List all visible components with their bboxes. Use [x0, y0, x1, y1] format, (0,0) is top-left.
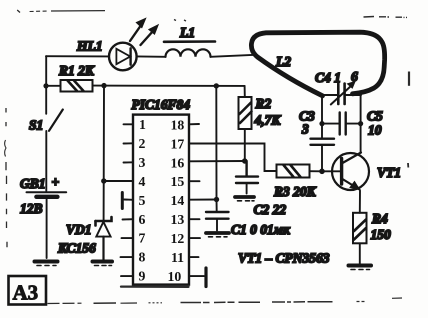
svg-text:C2 22: C2 22	[254, 202, 287, 217]
svg-text:VT1: VT1	[377, 165, 401, 180]
zener diode VD1	[96, 217, 112, 261]
battery GB1	[27, 192, 67, 258]
switch S1	[45, 56, 47, 114]
svg-text:4,7K: 4,7K	[254, 113, 282, 128]
svg-text:VT1 – CPN3563: VT1 – CPN3563	[238, 251, 330, 266]
svg-text:+: +	[52, 175, 60, 190]
wire emitter to R4	[359, 191, 361, 213]
svg-text:VD1: VD1	[66, 222, 92, 237]
pin 5 stub	[124, 199, 133, 201]
svg-text:7: 7	[139, 231, 146, 246]
svg-text:16: 16	[171, 155, 185, 170]
svg-text:R4: R4	[371, 211, 388, 226]
resistor R1	[61, 80, 93, 92]
svg-text:150: 150	[371, 227, 392, 242]
svg-text:1: 1	[139, 117, 146, 132]
wire LED to L1	[137, 55, 166, 57]
transistor VT1	[322, 153, 369, 191]
svg-text:12В: 12В	[20, 201, 43, 216]
loop antenna L2	[251, 32, 384, 96]
capacitor C2	[236, 161, 258, 194]
capacitor C1	[206, 200, 229, 231]
wire R3 to base node	[310, 170, 322, 172]
svg-text:8: 8	[139, 250, 146, 265]
svg-text:A3: A3	[13, 281, 39, 305]
pin 7 stub	[122, 237, 134, 239]
wire L1 to L2 loop	[211, 55, 257, 57]
svg-text:15: 15	[171, 174, 185, 189]
ground R4	[349, 266, 372, 270]
node A junction	[319, 121, 324, 126]
svg-text:18: 18	[171, 117, 185, 132]
wire R2 to node B	[244, 129, 246, 161]
svg-text:КС156: КС156	[57, 241, 96, 256]
pin 3 stub	[124, 161, 134, 163]
junction battery rail	[43, 83, 48, 88]
pin 4 wire to VD1 rail	[104, 180, 133, 182]
svg-text:14: 14	[171, 193, 185, 208]
svg-text:6: 6	[351, 69, 358, 84]
pin 10 stub	[189, 275, 204, 277]
junction pin14	[214, 197, 219, 202]
capacitor C3	[311, 139, 335, 145]
pin 6 stub	[123, 218, 134, 220]
ground battery	[35, 262, 58, 266]
junction VD1 line	[101, 83, 106, 88]
pin 9 stub	[121, 275, 133, 277]
wire loop left end down to node A	[321, 96, 323, 138]
wire R4 to ground	[359, 243, 361, 264]
pin 15 stub	[189, 180, 200, 182]
pin 10 terminator bar	[204, 268, 207, 287]
pin numbers	[139, 117, 185, 284]
pin 11 stub	[189, 256, 199, 258]
wire top rail from battery corner to LED	[46, 55, 109, 57]
svg-text:10: 10	[368, 123, 382, 138]
resistor R4	[353, 213, 367, 244]
pin 12 stub	[189, 237, 200, 239]
pin 1 stub	[124, 123, 134, 125]
pin 17 wire to R3	[189, 144, 277, 172]
svg-text:2: 2	[139, 136, 146, 151]
svg-text:GB1: GB1	[20, 176, 46, 191]
ground C1	[206, 233, 229, 237]
pin 16 wire to R2 node	[189, 160, 245, 162]
node B junction	[242, 158, 247, 163]
wire VD1 rail	[103, 86, 105, 220]
ground VD1	[93, 262, 113, 266]
svg-text:4: 4	[139, 174, 146, 189]
svg-text:17: 17	[171, 136, 185, 151]
svg-text:3: 3	[139, 155, 146, 170]
wire C5 to collector rail	[346, 123, 360, 125]
resistor R3	[277, 165, 310, 178]
junction C1 line	[214, 83, 219, 88]
inductor L1	[164, 42, 215, 57]
pin 2 stub	[124, 142, 134, 144]
svg-text:L1: L1	[179, 25, 195, 40]
svg-text:C4 1: C4 1	[315, 70, 341, 85]
svg-text:HL1: HL1	[76, 39, 103, 54]
svg-text:C5: C5	[367, 109, 383, 124]
junction pin4 wire	[101, 178, 106, 183]
node base junction	[319, 169, 325, 175]
pin 8 stub	[121, 256, 134, 258]
svg-text:R2: R2	[255, 96, 272, 111]
wire R1 row	[46, 85, 61, 87]
svg-text:11: 11	[171, 250, 184, 265]
resistor R2	[239, 97, 252, 129]
pin 18 stub	[189, 123, 199, 125]
ground C2	[235, 197, 254, 201]
svg-text:5: 5	[139, 193, 146, 208]
svg-text:10: 10	[168, 269, 182, 284]
pin 13 stub	[189, 218, 200, 220]
svg-text:R1 2K: R1 2K	[58, 63, 95, 78]
svg-text:13: 13	[171, 212, 185, 227]
pin 14 wire to C1 rail	[189, 199, 217, 201]
IC U1 PIC16F84	[133, 115, 189, 285]
svg-text:6: 6	[139, 212, 146, 227]
wire C3 to base node	[321, 145, 323, 172]
LED HL1	[109, 19, 158, 71]
capacitor C5	[340, 113, 346, 135]
svg-text:9: 9	[139, 269, 146, 284]
frame A3 box	[9, 276, 47, 305]
pin 5 terminator bar	[121, 193, 124, 209]
wire C1 rail	[215, 86, 217, 200]
svg-text:L2: L2	[275, 54, 291, 69]
svg-text:12: 12	[171, 231, 185, 246]
svg-text:C1 0 01мк: C1 0 01мк	[231, 222, 291, 237]
trimmer capacitor C4	[322, 82, 362, 105]
svg-text:PIC16F84: PIC16F84	[132, 97, 191, 112]
wire R1 row to R2	[244, 86, 246, 97]
node collector junction	[358, 121, 363, 126]
wire node A to C5	[322, 123, 339, 125]
wire loop right end down to collector	[360, 96, 362, 152]
svg-text:S1: S1	[29, 118, 43, 133]
svg-text:R3 20K: R3 20K	[273, 184, 317, 199]
svg-text:3: 3	[301, 122, 309, 137]
